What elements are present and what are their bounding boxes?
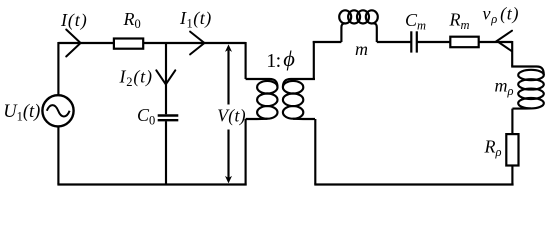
svg-text:I1(t): I1(t) <box>179 8 212 30</box>
svg-text:I(t): I(t) <box>60 10 88 31</box>
svg-text:1:ϕ: 1:ϕ <box>266 46 295 72</box>
svg-text:V(t): V(t) <box>217 105 246 125</box>
svg-text:m: m <box>355 39 368 59</box>
svg-text:I2(t): I2(t) <box>119 67 153 89</box>
svg-text:vρ(t): vρ(t) <box>483 4 520 26</box>
